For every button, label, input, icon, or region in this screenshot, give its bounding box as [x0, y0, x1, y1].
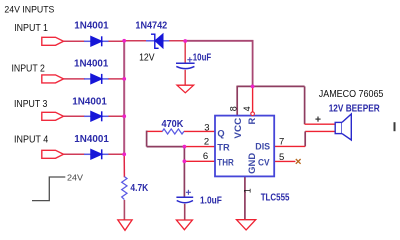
svg-text:TLC555: TLC555: [261, 192, 290, 203]
svg-text:12V: 12V: [139, 53, 155, 64]
svg-text:24V: 24V: [67, 172, 83, 182]
svg-text:Q: Q: [217, 129, 224, 139]
svg-text:1.0uF: 1.0uF: [200, 195, 222, 206]
svg-text:3: 3: [204, 122, 209, 133]
svg-text:8: 8: [229, 106, 239, 111]
svg-text:1N4001: 1N4001: [72, 97, 107, 108]
svg-text:INPUT 3: INPUT 3: [14, 99, 47, 110]
svg-text:1N4001: 1N4001: [74, 21, 109, 32]
svg-text:R: R: [247, 118, 257, 125]
svg-text:4: 4: [242, 106, 252, 111]
svg-text:1: 1: [242, 188, 252, 193]
svg-text:1N4001: 1N4001: [74, 59, 109, 70]
svg-text:4.7K: 4.7K: [130, 183, 149, 194]
svg-text:INPUT 2: INPUT 2: [12, 64, 45, 75]
svg-text:12V BEEPER: 12V BEEPER: [329, 104, 381, 115]
svg-text:2: 2: [204, 137, 209, 148]
svg-text:7: 7: [279, 136, 284, 147]
svg-text:10uF: 10uF: [193, 53, 211, 64]
svg-text:INPUT 4: INPUT 4: [14, 135, 49, 146]
svg-text:VCC: VCC: [233, 117, 243, 138]
svg-text:INPUT 1: INPUT 1: [14, 23, 48, 34]
svg-text:1N4742: 1N4742: [135, 21, 167, 32]
svg-text:1N4001: 1N4001: [74, 134, 109, 145]
svg-text:CV: CV: [258, 158, 270, 168]
svg-text:JAMECO 76065: JAMECO 76065: [319, 89, 384, 100]
svg-text:THR: THR: [217, 157, 234, 167]
svg-text:24V INPUTS: 24V INPUTS: [4, 3, 54, 14]
svg-text:TR: TR: [217, 142, 230, 152]
svg-text:DIS: DIS: [255, 141, 270, 151]
svg-text:470K: 470K: [162, 119, 185, 130]
svg-text:GND: GND: [247, 153, 257, 174]
svg-text:5: 5: [279, 152, 284, 163]
svg-text:6: 6: [203, 151, 208, 162]
